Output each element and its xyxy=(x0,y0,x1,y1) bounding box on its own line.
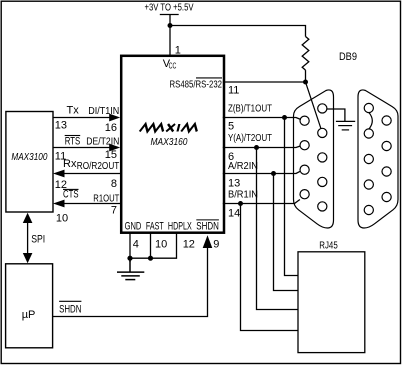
wire Rx / RO/R2OUT xyxy=(53,158,121,191)
wire pin 5 drop to RJ45 xyxy=(285,118,298,276)
junction dot GND node xyxy=(127,256,132,261)
svg-text:Z(B)/T1OUT: Z(B)/T1OUT xyxy=(228,104,272,115)
RJ45 box xyxy=(298,252,365,353)
svg-text:B/R1IN: B/R1IN xyxy=(228,189,258,200)
bottom pin 4 GND wire xyxy=(130,233,139,262)
svg-text:5: 5 xyxy=(228,121,234,133)
supply label +3V TO +5.5V xyxy=(145,3,194,14)
junction dot pin 13 xyxy=(271,171,276,176)
svg-text:12: 12 xyxy=(183,239,195,251)
svg-text:8: 8 xyxy=(111,178,117,190)
svg-text:RJ45: RJ45 xyxy=(319,241,338,252)
MAXIM logo xyxy=(140,124,199,132)
label RS485/RS-232 with overline xyxy=(170,78,223,91)
svg-text:9: 9 xyxy=(213,239,219,251)
svg-text:HDPLX: HDPLX xyxy=(168,221,192,233)
svg-text:R1OUT: R1OUT xyxy=(93,193,119,204)
svg-text:A/R2IN: A/R2IN xyxy=(228,161,258,172)
svg-text:SHDN: SHDN xyxy=(59,304,81,316)
svg-text:RTS: RTS xyxy=(65,136,81,148)
wire RTS / DE/T2IN xyxy=(53,136,120,163)
svg-text:RS485/RS-232: RS485/RS-232 xyxy=(170,80,223,91)
svg-text:DE/T2IN: DE/T2IN xyxy=(86,137,119,148)
SPI double arrow xyxy=(23,213,45,263)
junction dot resistor / pin 11 node xyxy=(303,80,308,85)
svg-text:15: 15 xyxy=(105,149,117,161)
svg-text:+3V TO +5.5V: +3V TO +5.5V xyxy=(145,3,194,14)
svg-text:Tx: Tx xyxy=(67,105,80,117)
svg-text:14: 14 xyxy=(228,208,240,220)
IC MAX3100 box xyxy=(6,112,53,213)
svg-text:Rx: Rx xyxy=(63,158,77,170)
svg-text:SPI: SPI xyxy=(31,234,45,246)
label VCC xyxy=(163,58,177,71)
wire pin 13 drop to RJ45 xyxy=(274,174,298,291)
svg-text:SHDN: SHDN xyxy=(196,221,219,233)
svg-text:DB9: DB9 xyxy=(339,51,357,63)
svg-text:Y(A)/T2OUT: Y(A)/T2OUT xyxy=(228,133,272,144)
svg-text:RO/R2OUT: RO/R2OUT xyxy=(77,161,120,172)
pin 1 label xyxy=(175,45,181,57)
svg-text:µP: µP xyxy=(22,309,36,321)
label MAX3100 xyxy=(11,152,47,163)
label uP xyxy=(22,309,36,321)
junction dot pin 14 xyxy=(238,201,243,206)
wire pin 11 RS485 select xyxy=(223,82,306,96)
bottom pin 12 HDPLX wire xyxy=(130,233,195,258)
wire supply to resistor xyxy=(170,26,306,37)
svg-text:MAX3100: MAX3100 xyxy=(11,152,47,163)
jumper arc on DB9 right xyxy=(369,112,373,129)
wire pin 14 drop to RJ45 xyxy=(241,204,298,331)
DB9 left pins left column xyxy=(300,116,309,199)
svg-text:DI/T1IN: DI/T1IN xyxy=(88,106,119,117)
SHDN net wire from uP to pin 9 xyxy=(53,235,213,316)
IC bottom labels GND FAST HDPLX SHDN xyxy=(125,220,219,233)
chassis ground wire from DB9 pin xyxy=(327,109,345,121)
chassis ground symbol xyxy=(336,121,355,129)
wire supply down to VCC pin 1 xyxy=(169,15,171,57)
supply terminal bar xyxy=(160,14,179,16)
wire pin 6 Y(A)/T2OUT xyxy=(223,133,300,163)
svg-text:13: 13 xyxy=(55,120,67,132)
svg-text:10: 10 xyxy=(155,239,167,251)
RJ45 label xyxy=(319,241,338,252)
resistor R1 pull-up xyxy=(302,37,309,82)
svg-text:FAST: FAST xyxy=(146,221,164,233)
DB9 right pins left column xyxy=(364,103,373,214)
svg-text:CC: CC xyxy=(169,62,177,71)
wire Tx / DI/T1IN xyxy=(53,105,120,134)
junction dot FAST node xyxy=(148,256,153,261)
svg-text:10: 10 xyxy=(56,213,68,225)
junction dot pin 6 xyxy=(254,145,259,150)
wire pin 14 B/R1IN xyxy=(223,189,300,219)
bottom pin 10 FAST wire xyxy=(151,233,168,259)
wire pin 6 drop to RJ45 xyxy=(257,148,298,310)
wire pin 13 A/R2IN xyxy=(223,161,301,189)
wire CTS / R1OUT xyxy=(53,188,121,224)
svg-text:MAX3160: MAX3160 xyxy=(151,137,188,148)
svg-text:GND: GND xyxy=(125,221,142,233)
svg-text:16: 16 xyxy=(105,122,117,134)
ground symbol below GND xyxy=(117,258,144,279)
svg-text:7: 7 xyxy=(111,205,117,217)
pin 9 label xyxy=(213,239,219,251)
junction dot supply node xyxy=(168,23,173,28)
op IC U1 MAX3160 box xyxy=(121,56,224,233)
wire pin 5 Z(B)/T1OUT xyxy=(223,104,301,133)
DB9 left connector outline xyxy=(294,90,334,228)
svg-text:13: 13 xyxy=(228,177,240,189)
junction dot pin 5 xyxy=(282,115,287,120)
svg-text:CTS: CTS xyxy=(63,188,79,200)
DB9 left pins right column xyxy=(318,104,327,211)
DB9 right pins right column xyxy=(382,116,391,202)
label MAX3160 xyxy=(151,137,188,148)
microprocessor box xyxy=(6,264,53,348)
svg-text:4: 4 xyxy=(133,239,139,251)
svg-text:11: 11 xyxy=(228,84,239,96)
DB9 label xyxy=(339,51,357,63)
DB9 right connector outline xyxy=(358,90,398,228)
wire pin 11 diagonal to DB9 xyxy=(306,82,322,129)
